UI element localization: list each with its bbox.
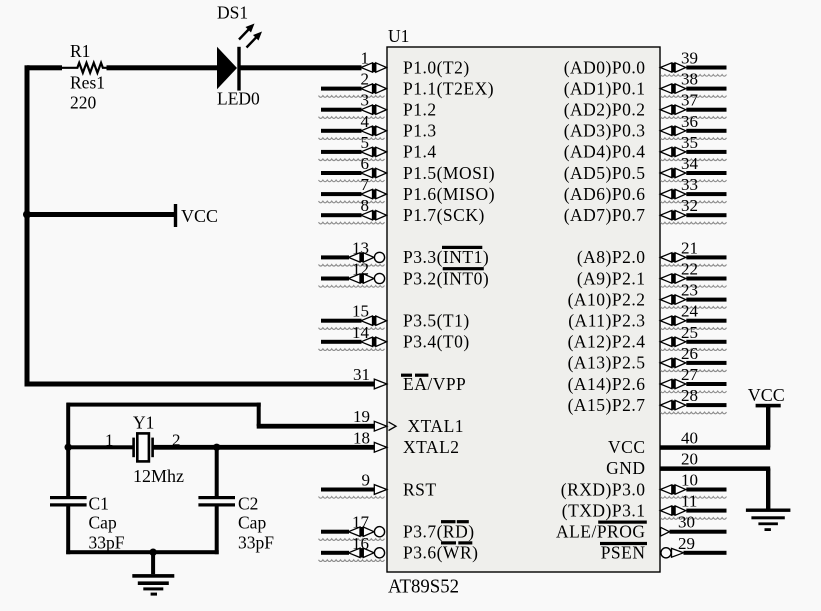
wire: left node to crystal pin 1	[68, 445, 134, 449]
svg-text:22: 22	[681, 260, 698, 279]
svg-text:XTAL2: XTAL2	[403, 437, 460, 457]
svg-text:Res1: Res1	[70, 73, 105, 93]
pin label RST	[403, 479, 437, 499]
wire: left vertical net (R1 to EA/VPP)	[25, 65, 30, 386]
pin 28 stub wire	[660, 386, 726, 414]
pin number 1 (crystal)	[105, 431, 114, 450]
pin 16 stub wire (active-low, bubble)	[319, 534, 385, 562]
pin label P1.6(MISO)	[403, 184, 495, 204]
svg-text:DS1: DS1	[217, 3, 248, 23]
pin 15 stub wire	[319, 302, 387, 330]
svg-text:LED0: LED0	[217, 88, 260, 108]
pin label (A15)P2.7	[568, 395, 646, 415]
pin 14 stub wire	[319, 323, 387, 351]
pin 40 (VCC) wire	[660, 428, 770, 450]
pin 6 stub wire	[319, 154, 387, 182]
pin label XTAL1	[408, 416, 465, 436]
pin label (RXD)P3.0	[561, 479, 646, 499]
svg-text:13: 13	[352, 238, 369, 257]
capacitor C2	[198, 496, 235, 507]
pin 19 input arrow	[353, 407, 396, 431]
pin 27 stub wire	[660, 365, 726, 393]
pin label XTAL2	[403, 437, 460, 457]
power symbol VCC (left)	[174, 204, 177, 227]
svg-text:29: 29	[678, 534, 695, 553]
pin 31 input arrow	[353, 365, 387, 389]
pin 23 stub wire	[660, 281, 726, 309]
pin 21 stub wire	[660, 238, 726, 266]
pin label P3.6(WR)	[403, 543, 478, 563]
junction node crystal right	[213, 444, 220, 451]
svg-text:2: 2	[361, 70, 370, 89]
pin label (AD2)P0.2	[564, 100, 646, 120]
pin label (A8)P2.0	[577, 247, 646, 267]
svg-text:VCC: VCC	[608, 437, 645, 457]
wire: C2 to ground rail	[215, 507, 219, 555]
svg-text:30: 30	[678, 513, 695, 532]
svg-text:RST: RST	[403, 479, 437, 499]
svg-text:C2: C2	[238, 494, 258, 514]
pin label P3.5(T1)	[403, 311, 470, 331]
svg-text:12Mhz: 12Mhz	[133, 466, 184, 486]
wire: EA/VPP net row	[27, 382, 375, 387]
svg-text:AT89S52: AT89S52	[388, 576, 459, 598]
svg-text:P3.5(T1): P3.5(T1)	[403, 311, 470, 331]
net label VCC (right)	[748, 385, 785, 405]
pin 1 stub wire	[361, 49, 387, 73]
wire: C1 to ground rail	[66, 507, 70, 555]
svg-text:33pF: 33pF	[238, 533, 274, 553]
pin 33 stub wire	[660, 175, 726, 203]
svg-text:10: 10	[681, 471, 698, 490]
svg-text:28: 28	[681, 386, 698, 405]
overline RD	[441, 520, 469, 523]
svg-text:XTAL1: XTAL1	[408, 416, 465, 436]
svg-text:11: 11	[681, 492, 697, 511]
pin label P1.0(T2)	[403, 57, 470, 77]
pin 32 stub wire	[660, 196, 726, 224]
value label Res1	[70, 73, 105, 93]
svg-text:GND: GND	[606, 458, 645, 478]
pin label P1.4	[403, 142, 437, 162]
net label VCC	[181, 206, 218, 226]
svg-text:24: 24	[681, 302, 699, 321]
svg-text:18: 18	[353, 428, 370, 447]
svg-text:P3.4(T0): P3.4(T0)	[403, 332, 470, 352]
pin 12 stub wire (active-low, bubble)	[319, 260, 385, 288]
pin label (A14)P2.6	[568, 374, 646, 394]
pin 36 stub wire	[660, 112, 726, 140]
svg-text:38: 38	[681, 70, 698, 89]
svg-text:(AD4)P0.4: (AD4)P0.4	[564, 142, 646, 162]
svg-text:U1: U1	[388, 26, 409, 46]
pin label VCC	[608, 437, 645, 457]
svg-text:23: 23	[681, 281, 698, 300]
pin label (AD5)P0.5	[564, 163, 646, 183]
svg-text:(A8)P2.0: (A8)P2.0	[577, 247, 646, 267]
svg-text:20: 20	[681, 449, 698, 468]
overline EA	[401, 374, 428, 377]
pin label (A12)P2.4	[568, 332, 646, 352]
svg-text:(A10)P2.2: (A10)P2.2	[568, 289, 646, 309]
wire: pin 40 vertical to VCC bar	[766, 406, 770, 448]
wire: pin 20 vertical to ground	[766, 468, 770, 510]
pin label (A13)P2.5	[568, 353, 646, 373]
refdes label DS1	[217, 3, 248, 23]
svg-text:R1: R1	[70, 41, 90, 61]
pin label P1.1(T2EX)	[403, 78, 494, 98]
svg-text:12: 12	[352, 260, 369, 279]
wire: resistor to LED	[107, 65, 218, 70]
wire: XTAL1 top route horizontal	[67, 403, 261, 407]
svg-text:Y1: Y1	[133, 413, 154, 433]
svg-text:14: 14	[352, 323, 370, 342]
value label 33pF (C2)	[238, 533, 274, 553]
pin 24 stub wire	[660, 302, 726, 330]
pin label P3.7(RD)	[403, 522, 475, 542]
pin label (AD1)P0.1	[564, 78, 646, 98]
svg-text:P1.0(T2): P1.0(T2)	[403, 57, 470, 77]
pin 38 stub wire	[660, 70, 726, 98]
pin label (A9)P2.1	[577, 268, 646, 288]
svg-text:(TXD)P3.1: (TXD)P3.1	[562, 500, 646, 520]
svg-text:6: 6	[361, 154, 370, 173]
pin label (AD0)P0.0	[564, 57, 646, 77]
junction node ground rail	[149, 549, 156, 556]
pin 7 stub wire	[319, 175, 387, 203]
overline PSEN	[600, 542, 647, 545]
capacitor C1	[50, 496, 87, 507]
svg-text:(A15)P2.7: (A15)P2.7	[568, 395, 646, 415]
crystal Y1	[132, 433, 154, 461]
wire: ground rail under capacitors	[66, 550, 219, 554]
pin 4 stub wire	[319, 112, 387, 140]
svg-text:34: 34	[681, 154, 699, 173]
value label 220	[70, 93, 97, 113]
svg-text:1: 1	[361, 49, 370, 68]
svg-text:3: 3	[361, 91, 370, 110]
pin label P3.4(T0)	[403, 332, 470, 352]
svg-text:P1.3: P1.3	[403, 121, 437, 141]
svg-text:25: 25	[681, 323, 698, 342]
svg-text:P1.7(SCK): P1.7(SCK)	[403, 205, 485, 225]
svg-text:(A14)P2.6: (A14)P2.6	[568, 374, 646, 394]
pin 13 stub wire (active-low, bubble)	[319, 238, 385, 266]
pin label (A10)P2.2	[568, 289, 646, 309]
junction node crystal left	[65, 444, 72, 451]
svg-text:P3.2(INT0): P3.2(INT0)	[403, 268, 489, 288]
ground (right)	[746, 509, 791, 532]
overline INT0	[443, 267, 484, 270]
svg-text:7: 7	[361, 175, 370, 194]
refdes label Y1	[133, 413, 154, 433]
pin 39 stub wire	[660, 49, 726, 77]
svg-text:Cap: Cap	[89, 513, 117, 533]
overline INT1	[442, 246, 482, 249]
pin 10 stub wire	[660, 471, 726, 499]
pin label EA/VPP	[403, 374, 466, 394]
svg-text:C1: C1	[89, 494, 109, 514]
svg-text:33: 33	[681, 175, 698, 194]
pin 37 stub wire	[660, 91, 726, 119]
refdes label U1	[388, 26, 409, 46]
svg-text:4: 4	[361, 112, 370, 131]
pin label (AD4)P0.4	[564, 142, 646, 162]
svg-text:(AD3)P0.3: (AD3)P0.3	[564, 121, 646, 141]
svg-text:VCC: VCC	[181, 206, 218, 226]
wire: ground stem (left)	[151, 552, 155, 574]
svg-text:8: 8	[361, 196, 370, 215]
wire: LED cathode to pin 1	[240, 65, 362, 70]
svg-text:32: 32	[681, 196, 698, 215]
svg-text:PSEN: PSEN	[601, 543, 646, 563]
pin 35 stub wire	[660, 133, 726, 161]
svg-text:(AD7)P0.7: (AD7)P0.7	[564, 205, 646, 225]
pin label (A11)P2.3	[568, 311, 645, 331]
resistor R1	[62, 63, 107, 73]
svg-text:P1.1(T2EX): P1.1(T2EX)	[403, 78, 494, 98]
value label Cap (C1)	[89, 513, 117, 533]
wire: XTAL1 route right vertical	[257, 403, 261, 427]
pin 25 stub wire	[660, 323, 726, 351]
svg-text:P3.6(WR): P3.6(WR)	[403, 543, 478, 563]
svg-text:P3.7(RD): P3.7(RD)	[403, 522, 475, 542]
wire: VCC stub	[27, 212, 175, 217]
part number label AT89S52	[388, 576, 459, 598]
svg-text:P1.4: P1.4	[403, 142, 437, 162]
pin number 2 (crystal)	[172, 431, 181, 450]
svg-text:(RXD)P3.0: (RXD)P3.0	[561, 479, 646, 499]
svg-text:P1.6(MISO): P1.6(MISO)	[403, 184, 495, 204]
pin 18 input arrow	[353, 428, 387, 452]
pin 20 (GND) wire	[660, 449, 770, 471]
pin label (TXD)P3.1	[562, 500, 646, 520]
overline PROG	[598, 521, 647, 524]
power symbol VCC (right)	[756, 404, 781, 408]
svg-text:P3.3(INT1): P3.3(INT1)	[403, 247, 489, 267]
pin 2 stub wire	[319, 70, 387, 98]
pin 17 stub wire (active-low, bubble)	[319, 513, 385, 541]
pin label P1.3	[403, 121, 437, 141]
pin label P1.2	[403, 100, 437, 120]
svg-text:VCC: VCC	[748, 385, 785, 405]
svg-text:(AD6)P0.6: (AD6)P0.6	[564, 184, 646, 204]
pin 3 stub wire	[319, 91, 387, 119]
svg-text:2: 2	[172, 431, 181, 450]
pin 22 stub wire	[660, 260, 726, 288]
wire: R1 net row (node to resistor)	[27, 65, 62, 70]
svg-text:33pF: 33pF	[89, 533, 125, 553]
pin 8 stub wire	[319, 196, 387, 224]
svg-text:5: 5	[361, 133, 370, 152]
IC U1 (AT89S52) body	[387, 47, 660, 572]
svg-text:31: 31	[353, 365, 370, 384]
svg-text:17: 17	[352, 513, 370, 532]
label C2	[238, 494, 258, 514]
pin 30 output arrow	[661, 513, 727, 536]
value label Cap (C2)	[238, 513, 266, 533]
svg-text:(A11)P2.3: (A11)P2.3	[568, 311, 645, 331]
svg-text:(AD0)P0.0: (AD0)P0.0	[564, 57, 646, 77]
svg-text:(A9)P2.1: (A9)P2.1	[577, 268, 646, 288]
pin label P3.2(INT0)	[403, 268, 489, 288]
pin 9 input arrow	[319, 471, 387, 499]
svg-text:16: 16	[352, 534, 369, 553]
svg-text:39: 39	[681, 49, 698, 68]
svg-text:36: 36	[681, 112, 698, 131]
svg-text:27: 27	[681, 365, 699, 384]
value label LED0	[217, 88, 260, 108]
wire: left node down to C1	[66, 447, 70, 498]
ground (left)	[132, 574, 174, 596]
svg-text:35: 35	[681, 133, 698, 152]
wire: crystal pin 2 to XTAL2 pin 18	[153, 445, 375, 450]
pin label PSEN	[601, 543, 646, 563]
label R1	[70, 41, 90, 61]
wire: XTAL1 net to pin 19	[257, 424, 375, 429]
junction node at VCC tap	[23, 211, 31, 219]
pin 29 bubble and arrow	[661, 534, 727, 558]
pin label ALE/PROG	[556, 522, 646, 542]
svg-text:(A13)P2.5: (A13)P2.5	[568, 353, 646, 373]
pin label (AD3)P0.3	[564, 121, 646, 141]
overline WR	[441, 541, 472, 544]
svg-text:37: 37	[681, 91, 699, 110]
svg-text:(A12)P2.4: (A12)P2.4	[568, 332, 646, 352]
pin 11 stub wire	[660, 492, 726, 520]
svg-text:Cap: Cap	[238, 513, 266, 533]
pin label (AD6)P0.6	[564, 184, 646, 204]
pin label GND	[606, 458, 645, 478]
svg-text:21: 21	[681, 238, 698, 257]
svg-text:26: 26	[681, 344, 698, 363]
pin label P3.3(INT1)	[403, 247, 489, 267]
svg-text:9: 9	[362, 471, 371, 490]
pin 5 stub wire	[319, 133, 387, 161]
svg-text:19: 19	[353, 407, 370, 426]
value label 12Mhz	[133, 466, 184, 486]
svg-text:(AD5)P0.5: (AD5)P0.5	[564, 163, 646, 183]
label C1	[89, 494, 109, 514]
value label 33pF (C1)	[89, 533, 125, 553]
svg-text:(AD1)P0.1: (AD1)P0.1	[564, 78, 646, 98]
pin 34 stub wire	[660, 154, 726, 182]
wire: crystal left vertical	[66, 403, 70, 450]
pin 26 stub wire	[660, 344, 726, 372]
svg-text:15: 15	[352, 302, 369, 321]
svg-text:P1.5(MOSI): P1.5(MOSI)	[403, 163, 495, 183]
svg-text:ALE/PROG: ALE/PROG	[556, 522, 646, 542]
svg-text:P1.2: P1.2	[403, 100, 437, 120]
pin label P1.7(SCK)	[403, 205, 485, 225]
svg-text:(AD2)P0.2: (AD2)P0.2	[564, 100, 646, 120]
LED DS1	[217, 24, 262, 91]
pin label P1.5(MOSI)	[403, 163, 495, 183]
svg-text:1: 1	[105, 431, 114, 450]
svg-text:40: 40	[681, 428, 698, 447]
svg-text:220: 220	[70, 93, 97, 113]
svg-text:EA/VPP: EA/VPP	[403, 374, 466, 394]
wire: right node down to C2	[215, 447, 219, 498]
pin label (AD7)P0.7	[564, 205, 646, 225]
